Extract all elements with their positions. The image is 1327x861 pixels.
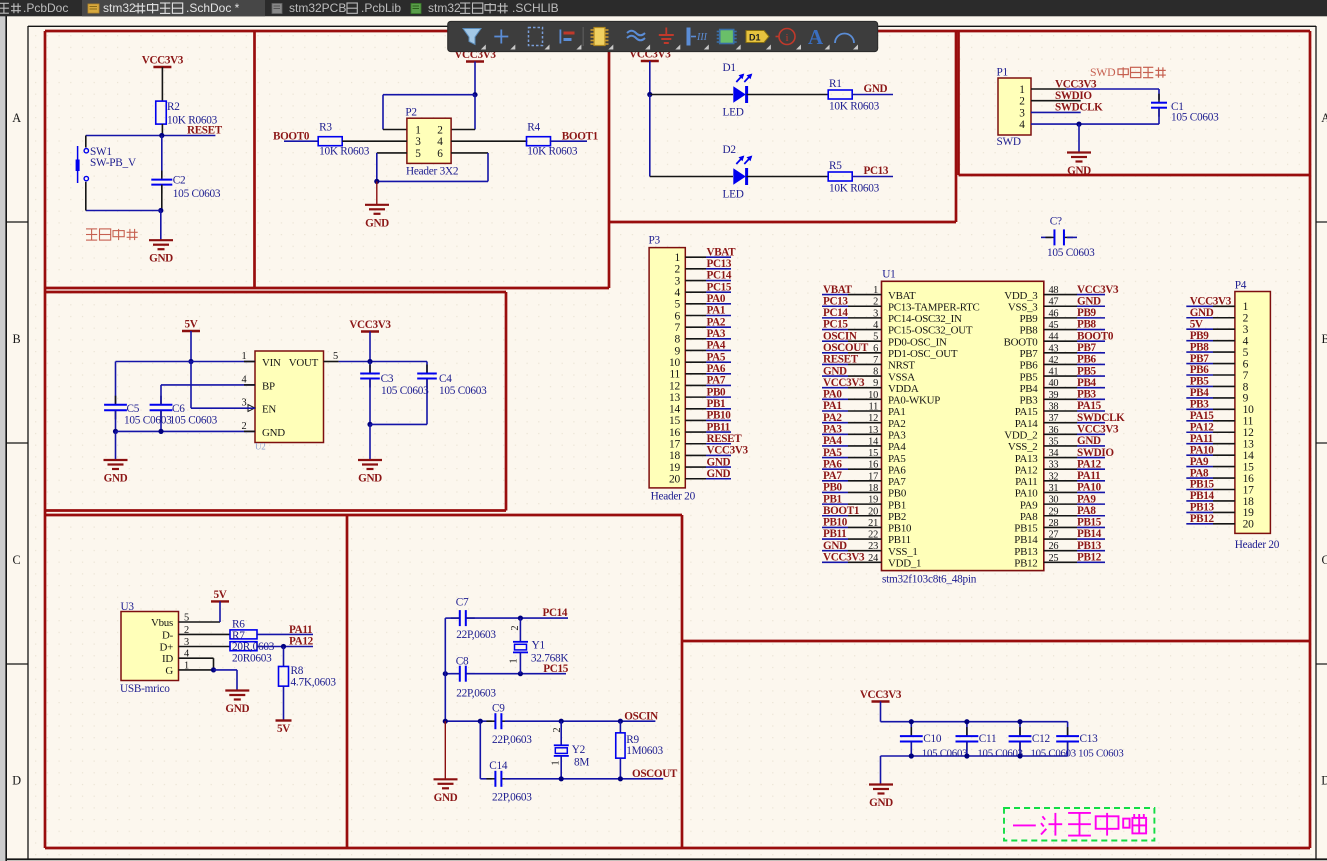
svg-text:PC13: PC13 <box>864 165 889 177</box>
svg-text:10K R0603: 10K R0603 <box>829 100 880 112</box>
svg-text:PD0-OSC_IN: PD0-OSC_IN <box>888 336 947 348</box>
svg-text:PA11: PA11 <box>1190 433 1213 445</box>
svg-text:GND: GND <box>1077 295 1101 307</box>
svg-text:PA9: PA9 <box>1020 499 1038 511</box>
svg-text:stm32f103c8t6_48pin: stm32f103c8t6_48pin <box>882 574 977 586</box>
svg-text:PB9: PB9 <box>1190 330 1210 342</box>
svg-text:PA1: PA1 <box>823 400 842 412</box>
svg-text:20: 20 <box>1243 519 1254 531</box>
svg-text:19: 19 <box>1243 507 1254 519</box>
svg-text:BOOT1: BOOT1 <box>823 505 859 517</box>
svg-text:G: G <box>165 665 173 677</box>
svg-text:1: 1 <box>1243 301 1249 313</box>
svg-text:9: 9 <box>675 345 681 357</box>
svg-text:GND: GND <box>864 83 888 95</box>
svg-text:3: 3 <box>1243 324 1249 336</box>
svg-text:1: 1 <box>551 760 562 765</box>
svg-text:.PcbLib: .PcbLib <box>361 1 401 15</box>
svg-text:PA11: PA11 <box>1077 470 1100 482</box>
svg-text:VCC3V3: VCC3V3 <box>1190 296 1232 308</box>
svg-text:USB-mrico: USB-mrico <box>120 683 170 695</box>
svg-text:R5: R5 <box>829 160 842 172</box>
svg-text:PA7: PA7 <box>707 375 726 387</box>
svg-text:B: B <box>13 332 21 346</box>
svg-text:9: 9 <box>1243 393 1249 405</box>
svg-text:Y1: Y1 <box>532 640 545 652</box>
svg-text:stm32: stm32 <box>428 1 461 15</box>
svg-text:PB3: PB3 <box>1190 399 1210 411</box>
svg-text:VDD_2: VDD_2 <box>1004 429 1037 441</box>
svg-text:PB11: PB11 <box>823 528 846 540</box>
svg-text:4: 4 <box>1243 335 1249 347</box>
svg-text:PA5: PA5 <box>707 351 726 363</box>
svg-text:stm32: stm32 <box>103 1 136 15</box>
svg-text:PB3: PB3 <box>1019 395 1038 407</box>
svg-text:PB9: PB9 <box>1019 313 1037 325</box>
svg-text:105 C0603: 105 C0603 <box>977 747 1022 759</box>
svg-text:RESET: RESET <box>187 125 223 137</box>
svg-text:PB15: PB15 <box>1014 523 1038 535</box>
svg-text:4.7K,0603: 4.7K,0603 <box>291 677 337 689</box>
svg-text:D1: D1 <box>749 33 761 43</box>
svg-text:C: C <box>1322 553 1327 567</box>
svg-text:PA14: PA14 <box>1015 418 1039 430</box>
svg-text:1: 1 <box>1019 84 1024 96</box>
svg-text:VCC3V3: VCC3V3 <box>823 377 865 389</box>
svg-text:GND: GND <box>225 703 249 715</box>
svg-text:15: 15 <box>1243 461 1254 473</box>
svg-text:PA8: PA8 <box>1020 511 1038 523</box>
svg-text:C12: C12 <box>1032 733 1051 745</box>
svg-text:PB5: PB5 <box>1190 376 1210 388</box>
svg-text:PA6: PA6 <box>823 458 842 470</box>
svg-text:PA2: PA2 <box>823 412 842 424</box>
svg-text:GND: GND <box>1067 165 1091 177</box>
svg-text:PB7: PB7 <box>1190 353 1210 365</box>
svg-text:PA3: PA3 <box>888 429 906 441</box>
svg-text:R1: R1 <box>829 78 842 90</box>
svg-text:VIN: VIN <box>262 357 281 369</box>
svg-text:PB12: PB12 <box>1077 552 1102 564</box>
svg-text:PA1: PA1 <box>707 305 726 317</box>
svg-text:VBAT: VBAT <box>823 284 853 296</box>
svg-text:C8: C8 <box>456 656 469 668</box>
svg-text:C10: C10 <box>923 733 942 745</box>
svg-text:PB10: PB10 <box>823 517 848 529</box>
svg-text:PA8: PA8 <box>1190 467 1209 479</box>
svg-text:Y2: Y2 <box>572 744 586 756</box>
svg-text:C7: C7 <box>456 597 469 609</box>
svg-text:105 C0603: 105 C0603 <box>170 414 218 426</box>
svg-text:PA15: PA15 <box>1077 400 1102 412</box>
svg-text:3: 3 <box>242 398 247 409</box>
svg-text:R7: R7 <box>232 630 245 642</box>
svg-text:105 C0603: 105 C0603 <box>124 414 172 426</box>
svg-text:RESET: RESET <box>823 354 859 366</box>
svg-text:C5: C5 <box>127 403 140 415</box>
svg-text:C3: C3 <box>381 373 394 385</box>
svg-text:PA4: PA4 <box>707 340 726 352</box>
svg-text:16: 16 <box>1243 473 1254 485</box>
svg-text:VCC3V3: VCC3V3 <box>1055 79 1097 91</box>
svg-text:105 C0603: 105 C0603 <box>439 385 487 397</box>
svg-text:D: D <box>1321 774 1327 788</box>
svg-text:32.768K: 32.768K <box>531 653 569 665</box>
svg-text:105 C0603: 105 C0603 <box>922 747 967 759</box>
svg-text:PB1: PB1 <box>823 493 842 505</box>
svg-text:PA0-WKUP: PA0-WKUP <box>888 395 940 407</box>
svg-text:EN: EN <box>262 404 276 416</box>
svg-text:C4: C4 <box>439 373 452 385</box>
svg-text:GND: GND <box>869 797 893 809</box>
svg-text:U2: U2 <box>255 442 265 452</box>
svg-text:BOOT1: BOOT1 <box>562 131 598 143</box>
svg-text:B: B <box>1322 332 1327 346</box>
svg-text:PA11: PA11 <box>289 624 312 636</box>
svg-text:GND: GND <box>104 473 128 485</box>
svg-text:C11: C11 <box>979 733 997 745</box>
svg-text:BOOT0: BOOT0 <box>1077 330 1114 342</box>
svg-text:VCC3V3: VCC3V3 <box>1077 423 1119 435</box>
svg-text:GND: GND <box>1077 435 1101 447</box>
svg-text:PC13: PC13 <box>823 295 848 307</box>
svg-text:PA2: PA2 <box>888 418 906 430</box>
svg-text:PB11: PB11 <box>888 534 911 546</box>
svg-text:14: 14 <box>1243 450 1254 462</box>
svg-text:PC14: PC14 <box>543 607 568 619</box>
svg-text:GND: GND <box>823 365 847 377</box>
svg-text:5V: 5V <box>1190 318 1203 330</box>
svg-text:PB5: PB5 <box>1019 371 1038 383</box>
svg-text:11: 11 <box>669 369 680 381</box>
svg-text:5V: 5V <box>185 319 198 331</box>
svg-text:R9: R9 <box>626 734 639 746</box>
svg-text:GND: GND <box>1190 307 1214 319</box>
svg-text:10: 10 <box>669 357 680 369</box>
svg-text:20R,0603: 20R,0603 <box>232 641 275 653</box>
svg-text:PB4: PB4 <box>1019 383 1038 395</box>
svg-text:PA12: PA12 <box>1077 458 1102 470</box>
svg-text:10: 10 <box>1243 404 1254 416</box>
svg-text:2: 2 <box>1019 96 1025 108</box>
svg-text:PA10: PA10 <box>1190 444 1215 456</box>
svg-text:5V: 5V <box>214 589 227 601</box>
svg-text:7: 7 <box>1243 370 1249 382</box>
svg-text:PA3: PA3 <box>823 423 842 435</box>
svg-text:Header 20: Header 20 <box>1235 539 1280 551</box>
svg-text:PA10: PA10 <box>1015 488 1039 500</box>
svg-text:105 C0603: 105 C0603 <box>1031 747 1076 759</box>
svg-text:A: A <box>1321 111 1327 125</box>
svg-text:C2: C2 <box>173 175 186 187</box>
svg-text:PB0: PB0 <box>823 482 843 494</box>
svg-text:PC14-OSC32_IN: PC14-OSC32_IN <box>888 313 962 325</box>
svg-text:1: 1 <box>415 125 420 137</box>
svg-text:SWD: SWD <box>997 136 1021 148</box>
svg-text:PA12: PA12 <box>1190 421 1215 433</box>
svg-text:5: 5 <box>1243 347 1249 359</box>
svg-text:PB14: PB14 <box>1190 490 1215 502</box>
svg-text:VDD_3: VDD_3 <box>1004 290 1038 302</box>
svg-text:VCC3V3: VCC3V3 <box>860 689 902 701</box>
svg-text:13: 13 <box>669 392 680 404</box>
svg-text:C: C <box>13 553 21 567</box>
svg-text:P2: P2 <box>405 107 417 119</box>
svg-text:.PcbDoc: .PcbDoc <box>23 1 68 15</box>
svg-text:PB7: PB7 <box>1019 348 1038 360</box>
svg-text:PB13: PB13 <box>1014 546 1038 558</box>
svg-text:GND: GND <box>262 427 285 439</box>
svg-text:U1: U1 <box>882 269 895 281</box>
svg-text:2: 2 <box>675 264 681 276</box>
svg-text:.SchDoc *: .SchDoc * <box>186 1 240 15</box>
svg-text:VCC3V3: VCC3V3 <box>1077 284 1119 296</box>
svg-text:C9: C9 <box>492 703 505 715</box>
svg-text:PC15: PC15 <box>543 663 568 675</box>
svg-text:GND: GND <box>823 540 847 552</box>
svg-text:PB2: PB2 <box>888 511 906 523</box>
svg-text:22P,0603: 22P,0603 <box>492 792 532 804</box>
svg-text:NRST: NRST <box>888 360 915 372</box>
svg-text:A: A <box>808 25 824 49</box>
svg-text:D2: D2 <box>723 144 737 156</box>
svg-text:Vbus: Vbus <box>151 617 173 629</box>
svg-text:7: 7 <box>675 322 681 334</box>
svg-text:SW-PB_V: SW-PB_V <box>90 157 137 169</box>
svg-text:PA12: PA12 <box>289 635 314 647</box>
svg-text:III: III <box>696 32 708 43</box>
svg-text:4: 4 <box>242 374 247 385</box>
svg-text:5: 5 <box>415 148 421 160</box>
svg-text:PA1: PA1 <box>888 406 906 418</box>
svg-text:PB1: PB1 <box>888 499 906 511</box>
svg-text:11: 11 <box>1243 416 1254 428</box>
svg-text:VCC3V3: VCC3V3 <box>707 445 749 457</box>
svg-text:22P,0603: 22P,0603 <box>492 734 532 746</box>
svg-text:17: 17 <box>669 439 680 451</box>
svg-text:1M0603: 1M0603 <box>626 745 663 757</box>
svg-text:LED: LED <box>723 107 744 119</box>
svg-text:PA0: PA0 <box>823 389 842 401</box>
svg-text:PA2: PA2 <box>707 316 726 328</box>
svg-text:PB0: PB0 <box>888 488 907 500</box>
svg-text:PC14: PC14 <box>823 307 848 319</box>
svg-text:PB5: PB5 <box>1077 365 1097 377</box>
svg-text:PB11: PB11 <box>707 421 730 433</box>
svg-text:18: 18 <box>669 450 680 462</box>
svg-text:105 C0603: 105 C0603 <box>1171 112 1219 124</box>
svg-text:SWDCLK: SWDCLK <box>1077 412 1125 424</box>
svg-text:LED: LED <box>723 189 744 201</box>
svg-text:VSS_1: VSS_1 <box>888 546 918 558</box>
svg-text:105 C0603: 105 C0603 <box>173 188 221 200</box>
svg-text:SWDIO: SWDIO <box>1055 90 1092 102</box>
svg-text:19: 19 <box>669 462 680 474</box>
svg-text:VSSA: VSSA <box>888 371 915 383</box>
svg-text:5: 5 <box>333 351 338 362</box>
svg-text:Header 3X2: Header 3X2 <box>406 166 459 178</box>
svg-text:3: 3 <box>675 275 681 287</box>
svg-text:PC15-OSC32_OUT: PC15-OSC32_OUT <box>888 325 973 337</box>
svg-text:105 C0603: 105 C0603 <box>381 385 429 397</box>
svg-text:4: 4 <box>437 136 443 148</box>
svg-text:8M: 8M <box>574 757 589 769</box>
svg-text:PB15: PB15 <box>1077 517 1102 529</box>
svg-text:1: 1 <box>509 658 520 663</box>
svg-text:20R0603: 20R0603 <box>232 652 272 664</box>
svg-text:12: 12 <box>1243 427 1254 439</box>
svg-text:PA6: PA6 <box>888 464 906 476</box>
svg-text:D1: D1 <box>723 62 736 74</box>
svg-text:VCC3V3: VCC3V3 <box>142 55 184 67</box>
svg-text:2: 2 <box>437 125 443 137</box>
svg-text:ID: ID <box>162 653 173 665</box>
svg-text:PA4: PA4 <box>823 435 842 447</box>
svg-text:PB1: PB1 <box>707 398 726 410</box>
svg-text:VDDA: VDDA <box>888 383 919 395</box>
svg-text:22P,0603: 22P,0603 <box>456 688 496 700</box>
svg-text:GND: GND <box>434 792 458 804</box>
svg-text:2: 2 <box>510 625 521 630</box>
svg-text:PB4: PB4 <box>1190 387 1210 399</box>
svg-text:PB6: PB6 <box>1019 360 1038 372</box>
svg-text:2: 2 <box>1243 313 1249 325</box>
svg-text:A: A <box>12 111 21 125</box>
svg-text:PC15: PC15 <box>707 281 732 293</box>
svg-text:R2: R2 <box>167 101 180 113</box>
svg-text:5: 5 <box>675 299 681 311</box>
svg-text:PA8: PA8 <box>1077 505 1096 517</box>
svg-text:16: 16 <box>669 427 680 439</box>
svg-text:P1: P1 <box>997 67 1008 79</box>
svg-text:8: 8 <box>1243 381 1249 393</box>
svg-text:i: i <box>785 32 788 44</box>
svg-text:PB3: PB3 <box>1077 389 1097 401</box>
svg-text:SWD: SWD <box>1090 66 1116 79</box>
svg-text:17: 17 <box>1243 484 1254 496</box>
svg-text:PA4: PA4 <box>888 441 906 453</box>
svg-text:PB9: PB9 <box>1077 307 1097 319</box>
svg-text:RESET: RESET <box>707 433 743 445</box>
svg-text:4: 4 <box>1019 119 1025 131</box>
svg-text:VDD_1: VDD_1 <box>888 558 921 570</box>
svg-text:PB4: PB4 <box>1077 377 1097 389</box>
svg-text:PA15: PA15 <box>1015 406 1039 418</box>
svg-text:.SCHLIB: .SCHLIB <box>512 1 559 15</box>
svg-text:C14: C14 <box>489 760 508 772</box>
svg-text:PA15: PA15 <box>1190 410 1215 422</box>
svg-text:VBAT: VBAT <box>707 246 737 258</box>
svg-text:PB12: PB12 <box>1190 513 1215 525</box>
svg-text:PA11: PA11 <box>1015 476 1037 488</box>
svg-text:PB8: PB8 <box>1190 341 1210 353</box>
svg-text:3: 3 <box>415 136 421 148</box>
svg-text:R6: R6 <box>232 619 245 631</box>
svg-text:PA10: PA10 <box>1077 482 1102 494</box>
svg-text:PB13: PB13 <box>1077 540 1102 552</box>
svg-text:GND: GND <box>149 253 173 265</box>
svg-text:OSCIN: OSCIN <box>823 330 857 342</box>
svg-text:VSS_2: VSS_2 <box>1008 441 1038 453</box>
svg-text:1: 1 <box>242 351 247 362</box>
svg-text:13: 13 <box>1243 439 1254 451</box>
svg-text:R8: R8 <box>291 665 304 677</box>
svg-text:10K R0603: 10K R0603 <box>829 182 880 194</box>
svg-text:18: 18 <box>1243 496 1254 508</box>
svg-text:PA13: PA13 <box>1015 453 1039 465</box>
svg-text:D: D <box>12 774 21 788</box>
svg-text:P4: P4 <box>1235 280 1247 292</box>
svg-text:GND: GND <box>707 468 731 480</box>
svg-text:PB14: PB14 <box>1014 534 1038 546</box>
svg-text:C13: C13 <box>1080 733 1099 745</box>
svg-text:GND: GND <box>365 217 389 229</box>
svg-text:PA6: PA6 <box>707 363 726 375</box>
svg-text:PC13-TAMPER-RTC: PC13-TAMPER-RTC <box>888 301 980 313</box>
svg-text:GND: GND <box>358 473 382 485</box>
svg-text:stm32PCB: stm32PCB <box>289 1 346 15</box>
svg-text:1: 1 <box>675 252 681 264</box>
svg-text:PB15: PB15 <box>1190 479 1215 491</box>
svg-text:14: 14 <box>669 404 680 416</box>
svg-text:VCC3V3: VCC3V3 <box>349 319 391 331</box>
svg-text:PB7: PB7 <box>1077 342 1097 354</box>
svg-text:8: 8 <box>675 334 681 346</box>
svg-text:PA12: PA12 <box>1015 464 1038 476</box>
svg-text:PA5: PA5 <box>823 447 842 459</box>
svg-text:PA9: PA9 <box>1077 493 1096 505</box>
svg-text:105 C0603: 105 C0603 <box>1047 247 1095 259</box>
svg-text:VSS_3: VSS_3 <box>1008 301 1038 313</box>
svg-text:VOUT: VOUT <box>289 357 319 369</box>
svg-text:PA9: PA9 <box>1190 456 1209 468</box>
svg-text:PA3: PA3 <box>707 328 726 340</box>
svg-text:Header 20: Header 20 <box>651 491 696 503</box>
svg-text:10K R0603: 10K R0603 <box>319 146 370 158</box>
svg-text:105 C0603: 105 C0603 <box>1078 747 1123 759</box>
svg-text:VBAT: VBAT <box>888 290 916 302</box>
svg-text:OSCOUT: OSCOUT <box>823 342 869 354</box>
svg-text:PC13: PC13 <box>707 258 732 270</box>
svg-text:PD1-OSC_OUT: PD1-OSC_OUT <box>888 348 958 360</box>
svg-text:PC14: PC14 <box>707 270 732 282</box>
svg-text:10K R0603: 10K R0603 <box>527 146 578 158</box>
svg-text:PA7: PA7 <box>823 470 842 482</box>
svg-text:PB10: PB10 <box>707 410 732 422</box>
svg-text:OSCIN: OSCIN <box>624 710 658 722</box>
svg-text:PA0: PA0 <box>707 293 726 305</box>
svg-text:C6: C6 <box>172 403 185 415</box>
svg-text:6: 6 <box>675 310 681 322</box>
svg-text:OSCOUT: OSCOUT <box>632 768 678 780</box>
svg-text:6: 6 <box>437 148 443 160</box>
svg-text:PB6: PB6 <box>1190 364 1210 376</box>
svg-text:GND: GND <box>707 456 731 468</box>
svg-text:PA7: PA7 <box>888 476 906 488</box>
svg-text:15: 15 <box>669 415 680 427</box>
svg-text:2: 2 <box>552 727 563 732</box>
svg-text:PB10: PB10 <box>888 523 912 535</box>
svg-text:BP: BP <box>262 380 275 392</box>
svg-text:4: 4 <box>675 287 681 299</box>
svg-text:SWDCLK: SWDCLK <box>1055 102 1103 114</box>
svg-text:D+: D+ <box>159 642 173 654</box>
svg-text:PB6: PB6 <box>1077 354 1097 366</box>
svg-text:D-: D- <box>162 629 174 641</box>
svg-text:PB14: PB14 <box>1077 528 1102 540</box>
svg-text:3: 3 <box>1019 107 1025 119</box>
svg-text:P3: P3 <box>649 235 661 247</box>
